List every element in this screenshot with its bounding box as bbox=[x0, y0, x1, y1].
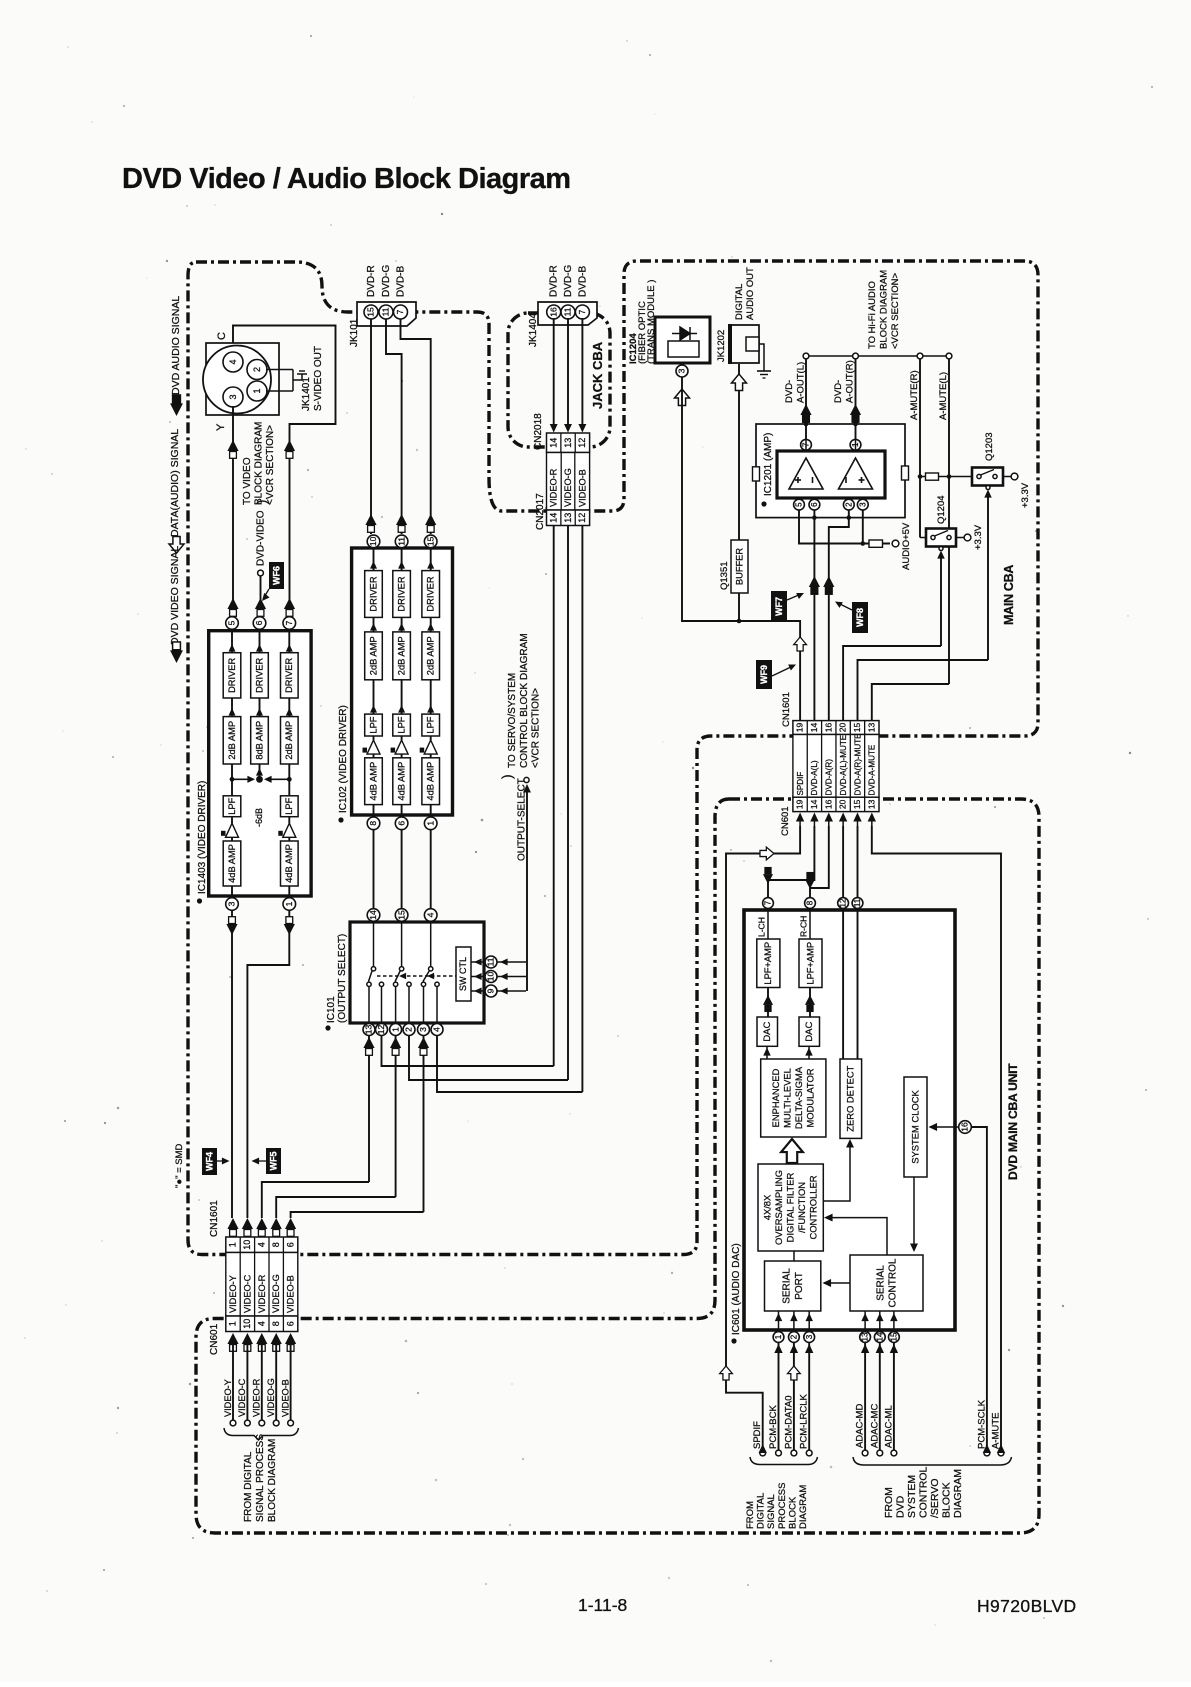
svg-text:VIDEO-C: VIDEO-C bbox=[242, 1274, 252, 1313]
svg-text:<VCR SECTION>: <VCR SECTION> bbox=[531, 688, 542, 768]
svg-text:DVD AUDIO SIGNAL: DVD AUDIO SIGNAL bbox=[170, 296, 182, 395]
svg-text:SPDIF: SPDIF bbox=[752, 1421, 763, 1449]
svg-text:MAIN CBA: MAIN CBA bbox=[1002, 565, 1016, 625]
svg-text:TO SERVO/SYSTEM: TO SERVO/SYSTEM bbox=[507, 673, 518, 768]
svg-text:3: 3 bbox=[677, 368, 687, 373]
svg-text:13: 13 bbox=[364, 1025, 374, 1035]
svg-text:BUFFER: BUFFER bbox=[734, 548, 744, 585]
svg-text:IC1403 (VIDEO DRIVER): IC1403 (VIDEO DRIVER) bbox=[197, 781, 208, 894]
svg-text:14: 14 bbox=[875, 1332, 884, 1341]
svg-text:R-CH: R-CH bbox=[799, 916, 809, 937]
svg-text:8: 8 bbox=[806, 900, 815, 905]
svg-text:LPF+AMP: LPF+AMP bbox=[805, 942, 815, 985]
svg-text:DIAGRAM: DIAGRAM bbox=[798, 1485, 809, 1529]
svg-text:PCM-SCLK: PCM-SCLK bbox=[976, 1399, 987, 1449]
svg-text:11: 11 bbox=[396, 537, 406, 546]
svg-text:DVD-A-MUTE: DVD-A-MUTE bbox=[868, 744, 877, 795]
svg-text:(TRANS MODULE ): (TRANS MODULE ) bbox=[646, 280, 657, 364]
svg-text:VIDEO-R: VIDEO-R bbox=[549, 468, 559, 507]
svg-text:DVD-A(R): DVD-A(R) bbox=[825, 759, 834, 796]
svg-text:DVD: DVD bbox=[895, 1495, 907, 1518]
svg-text:CN601: CN601 bbox=[780, 806, 791, 836]
svg-text:DVD-G: DVD-G bbox=[381, 265, 392, 297]
svg-text:14: 14 bbox=[809, 723, 819, 733]
svg-text:1: 1 bbox=[425, 821, 435, 826]
svg-text:8: 8 bbox=[271, 1242, 281, 1247]
svg-text:WF8: WF8 bbox=[855, 608, 865, 627]
svg-text:2dB AMP: 2dB AMP bbox=[284, 721, 294, 760]
svg-text:3: 3 bbox=[805, 1334, 814, 1339]
svg-text:FROM: FROM bbox=[883, 1487, 895, 1518]
svg-text:VIDEO-Y: VIDEO-Y bbox=[228, 1275, 238, 1313]
svg-text:L-CH: L-CH bbox=[757, 917, 767, 937]
svg-text:Y: Y bbox=[215, 423, 227, 431]
svg-text:VIDEO-Y: VIDEO-Y bbox=[223, 1379, 233, 1417]
svg-text:<VCR SECTION>: <VCR SECTION> bbox=[890, 273, 901, 349]
svg-text:10: 10 bbox=[242, 1319, 252, 1329]
svg-text:DRIVER: DRIVER bbox=[368, 576, 378, 611]
svg-text:6: 6 bbox=[285, 1242, 295, 1247]
svg-text:DRIVER: DRIVER bbox=[254, 658, 264, 693]
svg-text:DVD-B: DVD-B bbox=[577, 266, 588, 297]
svg-text:5: 5 bbox=[795, 502, 804, 507]
svg-text:DVD-A(R)-MUTE: DVD-A(R)-MUTE bbox=[853, 733, 862, 796]
svg-text:WF6: WF6 bbox=[272, 566, 282, 585]
svg-text:2: 2 bbox=[844, 502, 853, 507]
svg-text:19: 19 bbox=[795, 799, 805, 809]
svg-text:BLOCK: BLOCK bbox=[787, 1496, 798, 1529]
svg-text:14: 14 bbox=[809, 799, 819, 809]
svg-text:A-MUTE(L): A-MUTE(L) bbox=[938, 372, 949, 420]
svg-text:JACK CBA: JACK CBA bbox=[590, 341, 605, 409]
svg-text:11: 11 bbox=[853, 898, 862, 907]
svg-text:DVD-B: DVD-B bbox=[396, 266, 407, 297]
svg-text:9: 9 bbox=[486, 988, 496, 993]
svg-text:AUDIO+5V: AUDIO+5V bbox=[901, 522, 912, 570]
svg-text:14: 14 bbox=[368, 910, 378, 920]
svg-text:11: 11 bbox=[486, 957, 496, 966]
svg-text:10: 10 bbox=[368, 536, 378, 546]
svg-text:LPF: LPF bbox=[396, 716, 406, 733]
svg-text:7: 7 bbox=[764, 900, 773, 905]
svg-text:19: 19 bbox=[795, 723, 805, 733]
svg-text:VIDEO-B: VIDEO-B bbox=[577, 469, 587, 507]
svg-text:DVD Video / Audio Block Diagra: DVD Video / Audio Block Diagram bbox=[122, 163, 571, 195]
svg-text:FROM DIGITAL: FROM DIGITAL bbox=[243, 1451, 254, 1522]
svg-text:8: 8 bbox=[368, 821, 378, 826]
svg-text:15: 15 bbox=[852, 799, 862, 809]
svg-text:13: 13 bbox=[861, 1332, 870, 1341]
svg-text:<VCR SECTION>: <VCR SECTION> bbox=[265, 425, 276, 505]
svg-text:2: 2 bbox=[789, 1334, 798, 1339]
svg-text:8dB AMP: 8dB AMP bbox=[254, 721, 264, 760]
svg-text:DVD-R: DVD-R bbox=[366, 265, 377, 297]
svg-text:3: 3 bbox=[858, 502, 867, 507]
svg-text:1: 1 bbox=[228, 1242, 238, 1247]
svg-text:12: 12 bbox=[577, 438, 587, 448]
svg-text:DVD MAIN CBA UNIT: DVD MAIN CBA UNIT bbox=[1006, 1063, 1020, 1180]
svg-text:2dB AMP: 2dB AMP bbox=[227, 721, 237, 760]
svg-text:/FUNCTION: /FUNCTION bbox=[796, 1182, 807, 1233]
svg-text:ADAC-ML: ADAC-ML bbox=[883, 1405, 894, 1448]
svg-text:16: 16 bbox=[960, 1122, 970, 1132]
svg-text:VIDEO-R: VIDEO-R bbox=[252, 1378, 262, 1417]
svg-text:11: 11 bbox=[563, 307, 573, 316]
svg-text:DVD-A(L)-MUTE: DVD-A(L)-MUTE bbox=[839, 734, 848, 795]
svg-text:MULTI-LEVEL: MULTI-LEVEL bbox=[781, 1068, 792, 1128]
svg-text:4dB AMP: 4dB AMP bbox=[227, 844, 237, 883]
svg-text:1: 1 bbox=[284, 901, 294, 906]
svg-text:A-MUTE: A-MUTE bbox=[991, 1413, 1002, 1449]
svg-text:TO Hi-Fi AUDIO: TO Hi-Fi AUDIO bbox=[867, 281, 878, 349]
svg-text:16: 16 bbox=[823, 723, 833, 733]
svg-text:20: 20 bbox=[838, 799, 848, 809]
svg-text:LPF: LPF bbox=[227, 797, 237, 814]
svg-text:DVD-R: DVD-R bbox=[549, 265, 560, 297]
svg-text:DVD-G: DVD-G bbox=[563, 265, 574, 297]
svg-text:1: 1 bbox=[390, 1027, 400, 1032]
svg-text:DVD VIDEO SIGNAL: DVD VIDEO SIGNAL bbox=[169, 546, 181, 645]
svg-text:1-11-8: 1-11-8 bbox=[578, 1595, 627, 1615]
svg-text:SW CTL: SW CTL bbox=[458, 957, 468, 991]
svg-text:PROCESS: PROCESS bbox=[777, 1483, 788, 1529]
svg-text:8: 8 bbox=[271, 1321, 281, 1326]
svg-text:IC102 (VIDEO DRIVER): IC102 (VIDEO DRIVER) bbox=[338, 705, 349, 813]
svg-text:2dB AMP: 2dB AMP bbox=[368, 636, 378, 675]
svg-text:Q1204: Q1204 bbox=[936, 495, 947, 524]
svg-text:DRIVER: DRIVER bbox=[396, 576, 406, 611]
svg-text:Q1203: Q1203 bbox=[984, 432, 995, 461]
svg-text:16: 16 bbox=[548, 307, 558, 317]
svg-text:14: 14 bbox=[548, 513, 558, 523]
svg-text:A-MUTE(R): A-MUTE(R) bbox=[909, 370, 920, 420]
svg-text:4dB AMP: 4dB AMP bbox=[284, 844, 294, 883]
svg-text:DVD-A(L): DVD-A(L) bbox=[810, 760, 819, 795]
svg-text:DIAGRAM: DIAGRAM bbox=[952, 1469, 964, 1518]
svg-text:C: C bbox=[216, 332, 228, 340]
svg-text:DATA(AUDIO) SIGNAL: DATA(AUDIO) SIGNAL bbox=[169, 429, 181, 537]
svg-text:BLOCK: BLOCK bbox=[941, 1482, 953, 1518]
svg-text:VIDEO-G: VIDEO-G bbox=[271, 1274, 281, 1313]
svg-text:WF4: WF4 bbox=[205, 1152, 215, 1171]
svg-text:CONTROL: CONTROL bbox=[888, 1258, 899, 1307]
svg-text:JK1202: JK1202 bbox=[716, 330, 727, 362]
svg-text:CONTROL BLOCK DIAGRAM: CONTROL BLOCK DIAGRAM bbox=[519, 633, 530, 768]
svg-text:3: 3 bbox=[228, 394, 238, 399]
svg-text:6: 6 bbox=[396, 821, 406, 826]
svg-text:15: 15 bbox=[396, 910, 406, 920]
svg-text:DRIVER: DRIVER bbox=[284, 658, 294, 693]
svg-text:2: 2 bbox=[252, 367, 262, 372]
svg-text:A-OUT(R): A-OUT(R) bbox=[845, 360, 856, 403]
svg-text:DRIVER: DRIVER bbox=[227, 658, 237, 693]
svg-text:CN1601: CN1601 bbox=[781, 692, 792, 727]
svg-text:2: 2 bbox=[404, 1027, 414, 1032]
svg-text:1: 1 bbox=[228, 1321, 238, 1326]
svg-text:CN601: CN601 bbox=[209, 1323, 220, 1355]
svg-text:BLOCK DIAGRAM: BLOCK DIAGRAM bbox=[254, 422, 265, 505]
svg-text:CONTROLLER: CONTROLLER bbox=[807, 1175, 818, 1239]
svg-text:H9720BLVD: H9720BLVD bbox=[977, 1596, 1077, 1616]
svg-text:IC1201 (AMP): IC1201 (AMP) bbox=[763, 433, 774, 496]
svg-text:WF5: WF5 bbox=[269, 1152, 279, 1171]
svg-text:13: 13 bbox=[866, 799, 876, 809]
svg-text:5: 5 bbox=[227, 620, 237, 625]
svg-text:13: 13 bbox=[563, 438, 573, 448]
svg-text:DRIVER: DRIVER bbox=[425, 576, 435, 611]
svg-text:12: 12 bbox=[376, 1025, 386, 1035]
svg-text:4: 4 bbox=[425, 912, 435, 917]
svg-text:10: 10 bbox=[486, 972, 496, 982]
svg-text:OUTPUT-SELECT: OUTPUT-SELECT bbox=[517, 778, 528, 861]
svg-text:FROM: FROM bbox=[745, 1501, 756, 1529]
svg-text:ZERO DETECT: ZERO DETECT bbox=[845, 1065, 856, 1131]
svg-text:JK1404: JK1404 bbox=[528, 313, 539, 347]
svg-text:+3.3V: +3.3V bbox=[1020, 482, 1031, 508]
svg-text:12: 12 bbox=[577, 513, 587, 523]
svg-text:PORT: PORT bbox=[794, 1272, 805, 1300]
svg-text:DIGITAL: DIGITAL bbox=[734, 284, 745, 320]
svg-text:VIDEO-G: VIDEO-G bbox=[563, 468, 573, 507]
svg-text:4dB AMP: 4dB AMP bbox=[396, 762, 406, 801]
svg-text:7: 7 bbox=[284, 620, 294, 625]
svg-text:6: 6 bbox=[285, 1321, 295, 1326]
svg-text:SPDIF: SPDIF bbox=[796, 772, 805, 796]
svg-text:15: 15 bbox=[366, 307, 376, 317]
svg-text:JK1401: JK1401 bbox=[301, 377, 312, 411]
svg-text:(OUTPUT SELECT): (OUTPUT SELECT) bbox=[337, 934, 348, 1023]
svg-text:DAC: DAC bbox=[804, 1021, 815, 1041]
svg-text:CN2017: CN2017 bbox=[535, 493, 546, 530]
svg-text:A-OUT(L): A-OUT(L) bbox=[796, 362, 807, 403]
svg-text:PCM-BCK: PCM-BCK bbox=[768, 1405, 779, 1449]
svg-text:"●" = SMD: "●" = SMD bbox=[174, 1143, 185, 1188]
svg-text:DAC: DAC bbox=[762, 1021, 773, 1041]
svg-text:13: 13 bbox=[866, 723, 876, 733]
svg-text:VIDEO-B: VIDEO-B bbox=[280, 1379, 290, 1417]
svg-text:10: 10 bbox=[242, 1240, 252, 1250]
svg-text:ADAC-MC: ADAC-MC bbox=[869, 1404, 880, 1448]
svg-text:2dB AMP: 2dB AMP bbox=[425, 636, 435, 675]
svg-text:): ) bbox=[499, 774, 515, 779]
svg-text:WF7: WF7 bbox=[774, 597, 784, 616]
svg-text:1: 1 bbox=[774, 1334, 783, 1339]
svg-text:SIGNAL: SIGNAL bbox=[766, 1494, 777, 1529]
svg-text:ADAC-MD: ADAC-MD bbox=[855, 1404, 866, 1448]
svg-text:WF9: WF9 bbox=[759, 665, 769, 684]
svg-text:20: 20 bbox=[838, 723, 848, 733]
svg-text:3: 3 bbox=[418, 1027, 428, 1032]
svg-text:7: 7 bbox=[577, 309, 587, 314]
svg-text:4dB AMP: 4dB AMP bbox=[425, 762, 435, 801]
svg-text:SYSTEM: SYSTEM bbox=[906, 1475, 918, 1518]
svg-text:VIDEO-R: VIDEO-R bbox=[257, 1274, 267, 1313]
svg-text:3: 3 bbox=[227, 901, 237, 906]
svg-text:JK101: JK101 bbox=[349, 318, 360, 347]
svg-text:MODULATOR: MODULATOR bbox=[804, 1068, 815, 1127]
svg-text:DVD-VIDEO: DVD-VIDEO bbox=[256, 510, 267, 566]
svg-text:16: 16 bbox=[823, 799, 833, 809]
svg-text:ENPHANCED: ENPHANCED bbox=[770, 1068, 781, 1127]
svg-text:2dB AMP: 2dB AMP bbox=[396, 636, 406, 675]
svg-text:CN2018: CN2018 bbox=[533, 413, 544, 450]
svg-text:VIDEO-G: VIDEO-G bbox=[266, 1378, 276, 1417]
svg-text:S-VIDEO OUT: S-VIDEO OUT bbox=[313, 346, 324, 411]
svg-text:SIGNAL PROCESS: SIGNAL PROCESS bbox=[255, 1434, 266, 1522]
svg-text:+3.3V: +3.3V bbox=[973, 524, 984, 550]
svg-text:4X/8X: 4X/8X bbox=[762, 1194, 773, 1220]
svg-text:6: 6 bbox=[810, 502, 819, 507]
svg-text:DVD-: DVD- bbox=[833, 380, 844, 403]
svg-text:LPF+AMP: LPF+AMP bbox=[763, 942, 773, 985]
svg-text:TO VIDEO: TO VIDEO bbox=[242, 457, 253, 505]
svg-text:Q1351: Q1351 bbox=[719, 561, 730, 590]
svg-text:15: 15 bbox=[889, 1332, 898, 1341]
svg-text:CN1601: CN1601 bbox=[209, 1200, 220, 1237]
svg-text:SERIAL: SERIAL bbox=[875, 1265, 886, 1301]
svg-text:PCM-LRCLK: PCM-LRCLK bbox=[799, 1393, 810, 1449]
svg-text:DVD-: DVD- bbox=[784, 380, 795, 403]
svg-text:VIDEO-B: VIDEO-B bbox=[286, 1275, 296, 1313]
svg-text:IC101: IC101 bbox=[326, 996, 337, 1023]
svg-text:BLOCK DIAGRAM: BLOCK DIAGRAM bbox=[267, 1439, 278, 1522]
svg-text:11: 11 bbox=[381, 307, 391, 316]
svg-text:-6dB: -6dB bbox=[254, 808, 264, 827]
svg-text:CONTROL: CONTROL bbox=[918, 1467, 930, 1518]
svg-text:BLOCK DIAGRAM: BLOCK DIAGRAM bbox=[879, 270, 890, 349]
svg-text:/SERVO: /SERVO bbox=[929, 1479, 941, 1519]
svg-text:DELTA-SIGMA: DELTA-SIGMA bbox=[793, 1066, 804, 1129]
svg-text:PCM-DATA0: PCM-DATA0 bbox=[783, 1396, 794, 1449]
svg-text:4: 4 bbox=[432, 1027, 442, 1032]
svg-text:14: 14 bbox=[548, 438, 558, 448]
svg-text:4dB AMP: 4dB AMP bbox=[368, 762, 378, 801]
svg-text:OVERSAMPLING: OVERSAMPLING bbox=[773, 1170, 784, 1245]
svg-text:SERIAL: SERIAL bbox=[782, 1268, 793, 1304]
svg-text:VIDEO-C: VIDEO-C bbox=[237, 1378, 247, 1417]
svg-text:4: 4 bbox=[228, 359, 238, 364]
svg-text:6: 6 bbox=[254, 620, 264, 625]
svg-text:1: 1 bbox=[252, 388, 262, 393]
svg-text:15: 15 bbox=[852, 723, 862, 733]
svg-text:SYSTEM CLOCK: SYSTEM CLOCK bbox=[909, 1090, 920, 1164]
svg-text:4: 4 bbox=[257, 1321, 267, 1326]
svg-text:DIGITAL FILTER: DIGITAL FILTER bbox=[784, 1172, 795, 1242]
svg-text:LPF: LPF bbox=[368, 716, 378, 733]
svg-text:LPF: LPF bbox=[425, 716, 435, 733]
svg-text:12: 12 bbox=[839, 898, 848, 907]
svg-text:13: 13 bbox=[563, 513, 573, 523]
svg-text:LPF: LPF bbox=[284, 797, 294, 814]
svg-text:DIGITAL: DIGITAL bbox=[756, 1493, 767, 1529]
svg-text:4: 4 bbox=[257, 1242, 267, 1247]
svg-text:AUDIO OUT: AUDIO OUT bbox=[745, 267, 756, 320]
svg-text:15: 15 bbox=[425, 536, 435, 546]
svg-text:7: 7 bbox=[395, 309, 405, 314]
svg-text:IC601 (AUDIO DAC): IC601 (AUDIO DAC) bbox=[731, 1243, 742, 1335]
